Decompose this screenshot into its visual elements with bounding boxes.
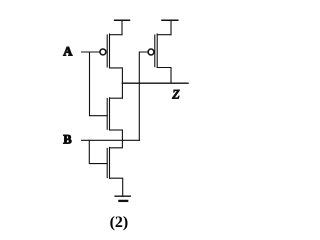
nmos Q3 gate bar bbox=[106, 99, 108, 130]
pmos Q2 gate bubble bbox=[148, 49, 154, 55]
ground symbol bbox=[115, 195, 130, 197]
wire Z down to Q3 drain bbox=[121, 83, 123, 98]
pmos Q1 source lead bbox=[110, 34, 123, 36]
pmos Q1 gate bubble bbox=[100, 49, 106, 55]
wire VDD2 stem bbox=[170, 20, 172, 35]
pmos Q1 gate bar bbox=[106, 35, 108, 67]
pmos Q2 drain lead bbox=[157, 68, 171, 84]
nmos Q3 source lead bbox=[110, 129, 123, 131]
pmos Q2 channel bbox=[156, 34, 158, 68]
wire A branch down to Q3 gate bbox=[90, 52, 108, 116]
wire input B bbox=[82, 139, 140, 141]
pmos Q1 drain lead bbox=[110, 68, 123, 83]
wire VDD1 stem bbox=[121, 20, 123, 35]
nmos Q4 source lead bbox=[110, 178, 123, 196]
nmos Q4 channel bbox=[109, 147, 111, 178]
pmos Q1 channel bbox=[109, 34, 111, 68]
wire input A bbox=[82, 51, 101, 53]
nmos Q3 channel bbox=[109, 98, 111, 130]
VDD rail 2 (power bar) bbox=[162, 19, 178, 21]
svg-text:B: B bbox=[63, 133, 72, 147]
svg-text:Z: Z bbox=[172, 87, 180, 101]
svg-text:(2): (2) bbox=[110, 214, 129, 231]
pmos Q2 gate bar bbox=[154, 35, 156, 67]
node Z output line bbox=[122, 82, 188, 84]
pmos Q2 source lead bbox=[157, 34, 171, 36]
svg-text:A: A bbox=[63, 44, 72, 58]
wire Q3 source to Q4 drain bbox=[110, 130, 123, 148]
nmos Q4 gate bar bbox=[106, 148, 108, 177]
wire B riser to Q2 gate bbox=[139, 52, 148, 140]
nmos Q3 drain lead bbox=[110, 97, 123, 99]
VDD rail 1 (power bar) bbox=[115, 19, 130, 21]
wire B branch down to Q4 gate bbox=[89, 140, 107, 163]
